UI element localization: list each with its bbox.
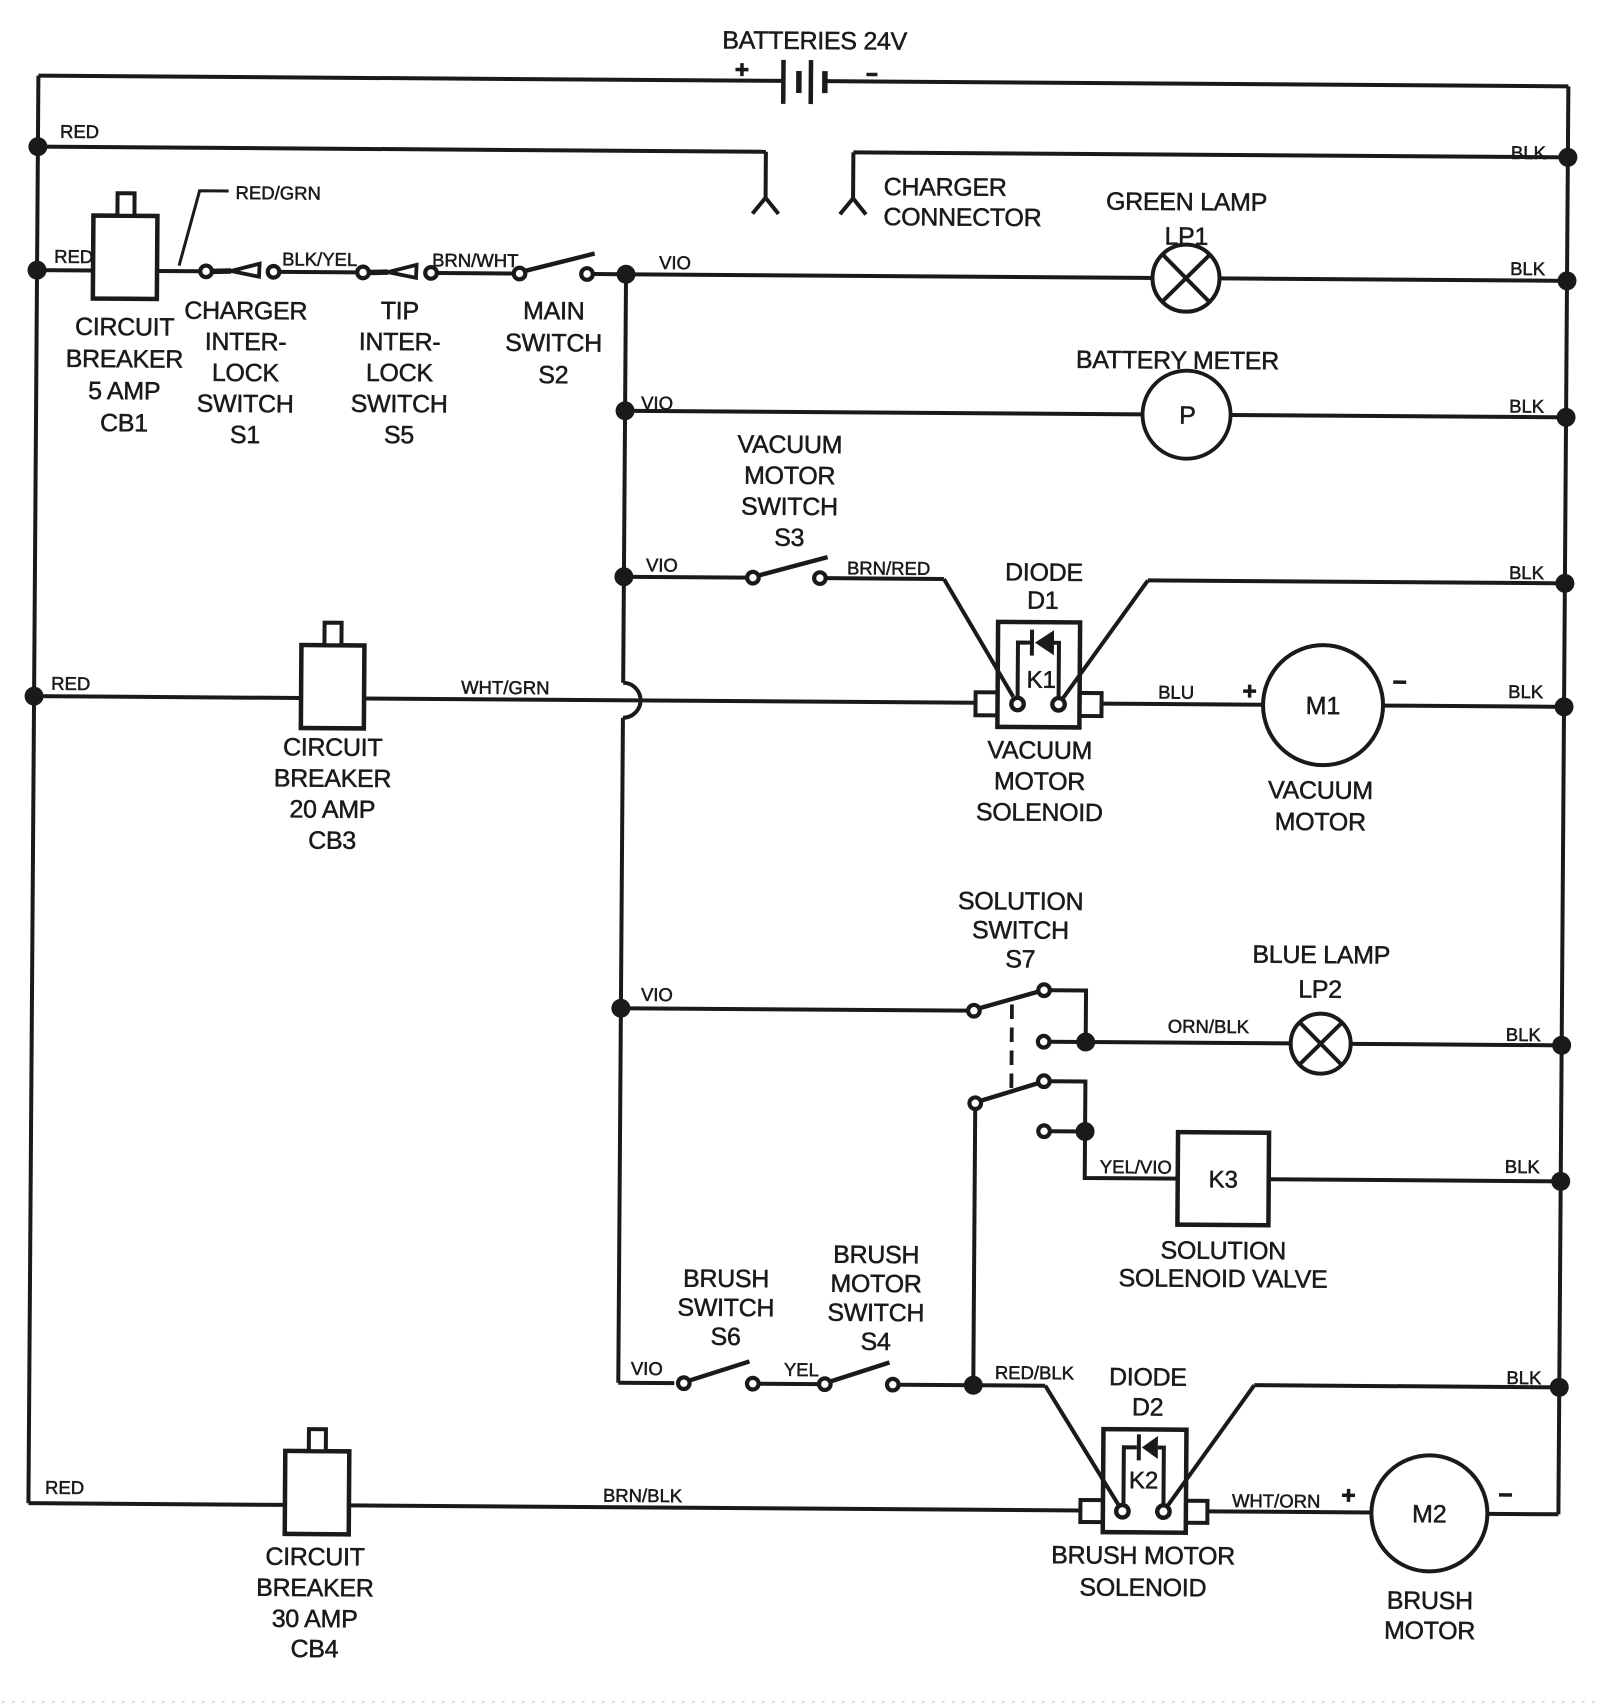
svg-text:BRN/BLK: BRN/BLK bbox=[603, 1485, 683, 1507]
label VACUUM MOTOR bbox=[1268, 776, 1373, 836]
wire battery meter to right bus bbox=[1231, 415, 1566, 417]
wire K3 to right bus bbox=[1269, 1179, 1561, 1181]
svg-text:DIODE: DIODE bbox=[1005, 558, 1083, 587]
charger connector left half bbox=[752, 152, 778, 214]
wire S7 lower output to K3 bbox=[1085, 1131, 1178, 1178]
svg-text:K3: K3 bbox=[1208, 1166, 1238, 1193]
svg-text:BREAKER: BREAKER bbox=[274, 764, 392, 793]
svg-text:SOLENOID VALVE: SOLENOID VALVE bbox=[1119, 1264, 1328, 1293]
circuit breaker CB1 bbox=[93, 193, 158, 299]
svg-text:5 AMP: 5 AMP bbox=[88, 377, 160, 406]
label RED/GRN with leader bbox=[179, 182, 321, 267]
wire K2 right pin to BLK rail bbox=[1168, 1385, 1559, 1508]
solenoid valve K3 bbox=[1177, 1132, 1269, 1225]
svg-text:D1: D1 bbox=[1027, 587, 1059, 615]
wire CB4 to K2 left tab bbox=[349, 1505, 1080, 1510]
label SOLUTION SOLENOID VALVE bbox=[1119, 1236, 1328, 1293]
motor M1 vacuum motor bbox=[1263, 645, 1384, 766]
svg-text:S5: S5 bbox=[384, 421, 414, 449]
svg-text:RED: RED bbox=[45, 1477, 84, 1498]
node junction S7 upper output bbox=[1076, 1032, 1095, 1051]
label plus M1 bbox=[1243, 685, 1256, 698]
svg-text:BRN/RED: BRN/RED bbox=[847, 557, 930, 579]
wire left bus to CB1 bbox=[37, 268, 93, 272]
label CIRCUIT BREAKER 5 AMP CB1 bbox=[65, 313, 183, 438]
label DIODE D1 bbox=[1005, 558, 1083, 615]
svg-text:BATTERY METER: BATTERY METER bbox=[1076, 346, 1279, 375]
svg-text:BRUSH: BRUSH bbox=[683, 1265, 769, 1294]
svg-text:VACUUM: VACUUM bbox=[737, 431, 842, 460]
svg-text:GREEN LAMP: GREEN LAMP bbox=[1106, 188, 1267, 217]
svg-text:RED: RED bbox=[60, 121, 99, 142]
label DIODE D2 bbox=[1109, 1363, 1187, 1422]
svg-text:CB3: CB3 bbox=[308, 827, 356, 855]
svg-text:DIODE: DIODE bbox=[1109, 1363, 1187, 1392]
svg-text:SWITCH: SWITCH bbox=[351, 390, 448, 419]
label CHARGER INTER- LOCK SWITCH S1 bbox=[183, 297, 307, 450]
label MAIN SWITCH S2 bbox=[505, 297, 602, 390]
wire top rail right bbox=[825, 81, 1568, 86]
wire K1 right pin to BLK rail bbox=[1063, 580, 1565, 701]
lamp LP2 blue lamp bbox=[1290, 1013, 1350, 1073]
switch S2 main switch bbox=[514, 253, 595, 280]
wire M2 to right bus bbox=[1487, 1512, 1558, 1516]
wire left bus vertical bbox=[28, 76, 38, 1503]
battery BATTERIES 24V bbox=[722, 26, 908, 104]
label TIP INTER- LOCK SWITCH S5 bbox=[350, 297, 448, 450]
svg-text:VIO: VIO bbox=[631, 1358, 663, 1379]
svg-text:LOCK: LOCK bbox=[212, 359, 280, 387]
svg-text:S4: S4 bbox=[860, 1328, 891, 1356]
wire M1 to right bus bbox=[1383, 706, 1564, 707]
label VACUUM MOTOR SOLENOID bbox=[976, 736, 1103, 827]
node junction right bus BLK rail bbox=[1558, 148, 1577, 167]
wire BLK rail from charger connector bbox=[853, 152, 1567, 157]
node junction S7 lower output bbox=[1075, 1122, 1094, 1141]
svg-text:BRUSH MOTOR: BRUSH MOTOR bbox=[1051, 1541, 1235, 1570]
diode D1 symbol bbox=[1032, 630, 1054, 656]
wire top rail left bbox=[38, 76, 783, 81]
wire CB3 to K1 left tab bbox=[364, 698, 975, 702]
svg-text:SWITCH: SWITCH bbox=[741, 493, 838, 522]
switch S1 charger interlock bbox=[200, 263, 279, 277]
svg-text:D2: D2 bbox=[1132, 1393, 1164, 1421]
svg-text:SOLUTION: SOLUTION bbox=[958, 887, 1084, 916]
svg-text:CIRCUIT: CIRCUIT bbox=[75, 313, 175, 342]
svg-text:BLK: BLK bbox=[1506, 1367, 1542, 1388]
wire S3 diagonal inside K1 bbox=[996, 668, 1013, 697]
motor M2 brush motor bbox=[1371, 1455, 1488, 1572]
svg-text:SWITCH: SWITCH bbox=[505, 329, 602, 358]
wire VIO bus to battery meter bbox=[625, 411, 1142, 415]
svg-text:VIO: VIO bbox=[641, 392, 673, 413]
circuit breaker CB4 bbox=[285, 1429, 350, 1534]
node junction VIO bus battery meter row bbox=[616, 401, 635, 420]
label CIRCUIT BREAKER 30 AMP CB4 bbox=[256, 1543, 374, 1664]
node junction VIO bus S3 row bbox=[614, 567, 633, 586]
battery minus terminal label bbox=[866, 73, 877, 77]
svg-text:CHARGER: CHARGER bbox=[184, 297, 307, 326]
wire K2 right tab to M2 bbox=[1207, 1511, 1371, 1512]
svg-text:MOTOR: MOTOR bbox=[830, 1270, 921, 1299]
wire S6 to S4 bbox=[760, 1382, 818, 1386]
svg-text:SWITCH: SWITCH bbox=[677, 1294, 774, 1323]
node junction left bus row3 bbox=[27, 261, 46, 280]
svg-text:VACUUM: VACUUM bbox=[987, 736, 1092, 765]
svg-text:VIO: VIO bbox=[646, 554, 678, 575]
svg-text:SOLUTION: SOLUTION bbox=[1160, 1237, 1286, 1266]
node junction right bus D2 row bbox=[1550, 1378, 1569, 1397]
label CIRCUIT BREAKER 20 AMP CB3 bbox=[273, 733, 391, 855]
svg-text:YEL: YEL bbox=[784, 1359, 819, 1380]
wire S4 diagonal inside K2 bbox=[1101, 1478, 1118, 1505]
wire VIO bus to S6 bbox=[618, 1381, 674, 1385]
switch S4 brush motor switch bbox=[819, 1362, 899, 1391]
label minus M2 bbox=[1499, 1493, 1512, 1497]
diode D2 symbol bbox=[1139, 1434, 1158, 1460]
svg-text:SOLENOID: SOLENOID bbox=[1079, 1573, 1206, 1602]
label BRUSH MOTOR SWITCH S4 bbox=[827, 1241, 925, 1357]
label SOLUTION SWITCH S7 bbox=[957, 887, 1083, 974]
node junction VIO bus S7 row bbox=[611, 999, 630, 1018]
svg-text:S3: S3 bbox=[774, 524, 804, 552]
svg-text:BLK: BLK bbox=[1511, 142, 1547, 163]
label GREEN LAMP LP1 bbox=[1106, 188, 1267, 252]
svg-text:RED/GRN: RED/GRN bbox=[236, 182, 321, 204]
svg-text:ORN/BLK: ORN/BLK bbox=[1168, 1016, 1250, 1038]
svg-text:BLUE LAMP: BLUE LAMP bbox=[1252, 941, 1390, 970]
svg-text:WHT/ORN: WHT/ORN bbox=[1232, 1490, 1321, 1512]
wire VIO bus vertical lower bbox=[618, 718, 623, 1383]
svg-text:BRN/WHT: BRN/WHT bbox=[432, 249, 518, 271]
svg-text:INTER-: INTER- bbox=[359, 328, 441, 357]
meter P battery meter bbox=[1142, 370, 1231, 459]
svg-text:CHARGER: CHARGER bbox=[884, 173, 1007, 202]
switch S7 upper pole bbox=[968, 984, 1050, 1048]
node junction right bus battery meter row bbox=[1556, 408, 1575, 427]
svg-text:BLK: BLK bbox=[1509, 562, 1545, 583]
node junction right bus K3 row bbox=[1551, 1172, 1570, 1191]
svg-text:SOLENOID: SOLENOID bbox=[976, 798, 1103, 827]
label CHARGER CONNECTOR bbox=[883, 173, 1041, 232]
wire S7 lower throw to K3 node bbox=[1050, 1081, 1085, 1131]
wire S1 to S5 bbox=[281, 270, 356, 275]
label BRUSH MOTOR SOLENOID bbox=[1051, 1541, 1235, 1602]
svg-text:BLK/YEL: BLK/YEL bbox=[282, 248, 357, 270]
svg-text:BREAKER: BREAKER bbox=[256, 1574, 374, 1603]
pin K2 left bbox=[1116, 1505, 1128, 1517]
svg-text:M2: M2 bbox=[1412, 1500, 1447, 1528]
label minus M1 bbox=[1393, 680, 1406, 684]
node junction left bus RED rail bbox=[28, 137, 47, 156]
node junction VIO bus row3 bbox=[616, 265, 635, 284]
svg-text:SWITCH: SWITCH bbox=[197, 390, 294, 419]
svg-text:SWITCH: SWITCH bbox=[972, 916, 1069, 945]
svg-text:CIRCUIT: CIRCUIT bbox=[283, 733, 383, 762]
svg-text:VIO: VIO bbox=[659, 252, 691, 273]
svg-text:VIO: VIO bbox=[641, 984, 673, 1005]
wire K1 right tab to M1 bbox=[1102, 704, 1263, 705]
node junction brush row S7 feed bbox=[964, 1376, 983, 1395]
svg-text:BATTERIES 24V: BATTERIES 24V bbox=[722, 26, 907, 55]
svg-text:YEL/VIO: YEL/VIO bbox=[1100, 1156, 1172, 1178]
label BRUSH SWITCH S6 bbox=[677, 1265, 774, 1352]
svg-text:BREAKER: BREAKER bbox=[66, 345, 184, 374]
switch S7 mechanical link dashed bbox=[1009, 1004, 1013, 1091]
svg-text:M1: M1 bbox=[1306, 692, 1341, 720]
solenoid K2 brush motor solenoid bbox=[1080, 1429, 1208, 1533]
svg-text:BRUSH: BRUSH bbox=[1387, 1587, 1473, 1616]
pin K2 right bbox=[1157, 1505, 1169, 1517]
wire RED rail to charger connector bbox=[38, 147, 766, 152]
node junction right bus M1 row bbox=[1554, 697, 1573, 716]
svg-text:K2: K2 bbox=[1129, 1467, 1159, 1494]
svg-text:S1: S1 bbox=[230, 421, 260, 449]
wire S7 output to LP2 bbox=[1086, 1042, 1291, 1043]
svg-text:MOTOR: MOTOR bbox=[994, 767, 1085, 796]
svg-text:LP1: LP1 bbox=[1164, 223, 1208, 251]
lamp LP1 green lamp bbox=[1152, 244, 1219, 311]
svg-text:S6: S6 bbox=[711, 1323, 741, 1351]
svg-text:WHT/GRN: WHT/GRN bbox=[461, 677, 550, 699]
svg-text:LOCK: LOCK bbox=[366, 359, 434, 387]
svg-text:BLK: BLK bbox=[1510, 258, 1546, 279]
switch S3 vacuum motor switch bbox=[747, 557, 827, 584]
wire S7 lower common to brush row bbox=[973, 1110, 975, 1385]
svg-text:BLK: BLK bbox=[1505, 1156, 1541, 1177]
switch S7 lower pole bbox=[969, 1075, 1050, 1137]
wire right bus vertical bbox=[1558, 86, 1568, 1514]
label BLUE LAMP LP2 bbox=[1252, 941, 1390, 1004]
wire LP1 to right bus bbox=[1220, 278, 1567, 280]
svg-text:CIRCUIT: CIRCUIT bbox=[265, 1543, 365, 1572]
solenoid K1 vacuum motor solenoid bbox=[975, 622, 1102, 728]
label BRUSH MOTOR bbox=[1384, 1587, 1475, 1646]
svg-text:BLK: BLK bbox=[1509, 395, 1545, 416]
svg-text:BRUSH: BRUSH bbox=[833, 1241, 919, 1270]
svg-text:RED: RED bbox=[51, 673, 90, 694]
svg-text:MOTOR: MOTOR bbox=[1384, 1617, 1475, 1646]
wire S5 to S2 bbox=[438, 271, 512, 276]
wire S7 upper throw to lamp node bbox=[1050, 990, 1086, 1042]
battery plus terminal label bbox=[735, 63, 748, 76]
label VACUUM MOTOR SWITCH S3 bbox=[737, 431, 843, 553]
svg-text:TIP: TIP bbox=[381, 297, 419, 325]
node junction left bus CB3 row bbox=[25, 687, 44, 706]
svg-text:SWITCH: SWITCH bbox=[827, 1299, 924, 1328]
switch S5 tip interlock bbox=[357, 264, 437, 278]
wire VIO bus to S3 bbox=[624, 575, 746, 580]
label plus M2 bbox=[1342, 1489, 1355, 1502]
wire left bus to CB3 bbox=[34, 696, 301, 698]
svg-text:MOTOR: MOTOR bbox=[1275, 808, 1366, 837]
pin K1 right bbox=[1052, 698, 1064, 710]
svg-text:RED: RED bbox=[54, 246, 93, 267]
svg-text:VACUUM: VACUUM bbox=[1268, 776, 1373, 805]
switch S6 brush switch bbox=[678, 1361, 759, 1390]
wire left bus to CB4 bbox=[28, 1503, 284, 1505]
svg-text:CONNECTOR: CONNECTOR bbox=[883, 203, 1041, 232]
svg-text:BLK: BLK bbox=[1506, 1024, 1542, 1045]
circuit breaker CB3 bbox=[301, 623, 365, 729]
svg-text:S2: S2 bbox=[538, 361, 568, 389]
svg-text:RED/BLK: RED/BLK bbox=[995, 1362, 1075, 1384]
wire VIO bus vertical upper bbox=[623, 274, 626, 682]
wire S4 to K2 left pin bbox=[899, 1385, 1119, 1505]
charger connector right half bbox=[840, 152, 866, 214]
svg-text:CB4: CB4 bbox=[290, 1635, 338, 1663]
svg-text:K1: K1 bbox=[1026, 667, 1056, 694]
svg-text:S7: S7 bbox=[1005, 945, 1035, 973]
wire CB1 to S1 bbox=[157, 269, 199, 273]
wire VIO bus to S7 bbox=[621, 1008, 967, 1010]
pin K1 left bbox=[1011, 698, 1023, 710]
wire S3 to K1 left pin bbox=[826, 578, 1003, 678]
wire LP2 to right bus bbox=[1351, 1044, 1562, 1045]
svg-text:BLU: BLU bbox=[1158, 681, 1194, 702]
svg-text:20 AMP: 20 AMP bbox=[289, 795, 375, 824]
node junction right bus row3 bbox=[1557, 271, 1576, 290]
svg-text:P: P bbox=[1179, 402, 1196, 430]
svg-text:30 AMP: 30 AMP bbox=[272, 1605, 358, 1634]
wire S2 to LP1 bbox=[594, 274, 1152, 278]
svg-text:INTER-: INTER- bbox=[205, 328, 287, 357]
wire hop over CB3 rail bbox=[623, 683, 641, 718]
node junction right bus S3 row bbox=[1555, 574, 1574, 593]
svg-text:MAIN: MAIN bbox=[523, 297, 585, 325]
svg-text:LP2: LP2 bbox=[1298, 975, 1342, 1003]
svg-text:MOTOR: MOTOR bbox=[744, 462, 835, 491]
svg-text:CB1: CB1 bbox=[100, 409, 148, 437]
node junction right bus LP2 row bbox=[1552, 1036, 1571, 1055]
svg-text:BLK: BLK bbox=[1508, 681, 1544, 702]
